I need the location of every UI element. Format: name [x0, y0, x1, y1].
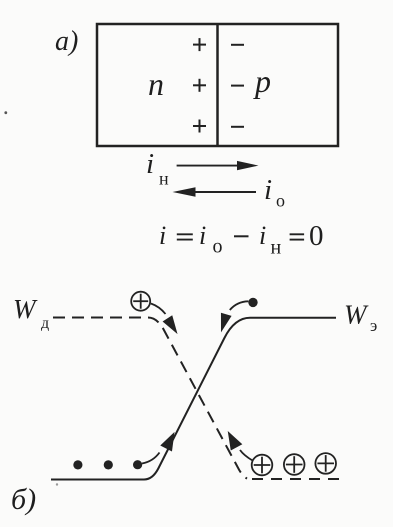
junction divider — [216, 24, 219, 146]
svg-text:н: н — [159, 169, 169, 189]
svg-text:д: д — [41, 315, 49, 332]
svg-text:a): a) — [55, 26, 78, 57]
arrow from bottom electron up the barrier — [142, 453, 160, 464]
plus sign 2 — [193, 79, 206, 92]
svg-text:W: W — [13, 294, 38, 324]
svg-text:э: э — [370, 316, 377, 335]
svg-text:б): б) — [11, 483, 36, 516]
arrow from top hole into junction — [151, 304, 166, 315]
svg-text:i: i — [199, 221, 206, 250]
svg-text:i: i — [159, 221, 166, 250]
electron dot top right — [248, 298, 257, 307]
svg-text:p: p — [253, 63, 271, 99]
solid band (electron energy level) — [51, 318, 336, 480]
svg-text:0: 0 — [309, 220, 324, 252]
arrow from top electron into junction — [230, 301, 249, 310]
scan speck left margin — [4, 111, 7, 114]
equation i = i_o - i_n = 0 — [159, 220, 324, 259]
arrow left i_o — [190, 191, 256, 193]
svg-text:i: i — [146, 148, 154, 180]
plus sign 1 — [193, 38, 206, 51]
hole symbol top (circle plus) — [131, 292, 150, 311]
svg-text:i: i — [259, 221, 266, 250]
electron dots bottom left — [73, 460, 82, 469]
svg-text:о: о — [276, 191, 285, 211]
hole symbols bottom right (circle plus x3) — [252, 453, 336, 475]
svg-text:i: i — [264, 174, 272, 206]
minus sign 3 — [231, 126, 244, 128]
plus sign 3 — [193, 120, 206, 133]
dashed band bottom horizontal — [252, 478, 342, 480]
arrow right i_n — [177, 165, 240, 167]
scan speck near b label — [56, 483, 58, 485]
svg-text:W: W — [344, 300, 369, 330]
minus sign 1 — [231, 44, 244, 46]
svg-text:н: н — [271, 237, 282, 259]
box outline — [97, 24, 338, 146]
svg-text:о: о — [213, 236, 223, 258]
dashed band (hole energy level) — [53, 318, 247, 479]
arrow from bottom hole up the barrier — [240, 450, 253, 461]
minus sign 2 — [231, 85, 244, 87]
svg-text:n: n — [148, 66, 164, 102]
